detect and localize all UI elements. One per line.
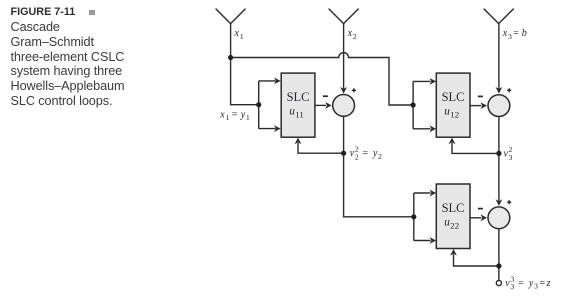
svg-text:3: 3 — [508, 32, 512, 41]
wire summer3 output down to terminal — [498, 229, 500, 280]
node v32 junction — [496, 151, 501, 156]
wire u22 output to summer 3 — [470, 217, 481, 219]
svg-text:SLC: SLC — [442, 90, 465, 104]
wire feedback y2 into bottom of u11 — [298, 143, 344, 153]
svg-text:11: 11 — [295, 109, 303, 119]
output terminal open circle — [496, 280, 501, 285]
wire branch pair into SLC u12 — [413, 81, 431, 128]
minus sign at summer 3 — [478, 208, 483, 210]
summer circle 3 — [488, 207, 510, 229]
arrowhead feedback into u11 bottom — [295, 138, 302, 145]
svg-text:1: 1 — [240, 32, 244, 41]
arrowhead into u11 upper input — [274, 78, 281, 85]
svg-text:y: y — [528, 278, 534, 289]
node x1=y1 branch junction — [256, 102, 261, 107]
svg-text:2: 2 — [378, 152, 382, 161]
label v3^3 = y3 = z — [505, 274, 550, 291]
node u12 branch junction — [411, 102, 416, 107]
wire branch pair into SLC u22 — [414, 193, 431, 241]
node junction dot on x1 bus — [228, 55, 233, 60]
arrowhead into u11 lower input — [274, 125, 281, 132]
wire u12 output to summer 2 — [470, 105, 481, 107]
label x1 — [234, 28, 244, 41]
svg-text:x: x — [502, 28, 508, 39]
svg-text:SLC: SLC — [287, 90, 310, 104]
summer circle 1 — [333, 95, 355, 117]
node z feedback junction — [496, 263, 501, 268]
wire main bus from node at x1 over x2 (hop) to right then down to u12 branch node — [231, 53, 414, 105]
svg-text:1: 1 — [226, 113, 230, 122]
arrowhead feedback into u22 bottom — [450, 249, 457, 256]
svg-text:x: x — [234, 28, 240, 39]
svg-text:x: x — [219, 109, 225, 120]
arrowhead x2 into summer 1 — [340, 87, 347, 94]
svg-text:3: 3 — [509, 153, 513, 162]
wire summer1 output down to y2 node and right to u22 branch node — [344, 117, 414, 217]
wire x2 column into summer 1 — [343, 24, 345, 90]
plus sign at summer 3 — [507, 200, 511, 204]
arrowhead into u22 upper input — [430, 190, 437, 197]
antenna 1 — [216, 9, 246, 24]
svg-text:b: b — [522, 28, 527, 39]
svg-text:2: 2 — [355, 152, 359, 161]
wire branch pair into SLC u11 — [259, 81, 276, 129]
SLC u22 box — [436, 184, 470, 249]
minus sign at summer 1 — [323, 95, 328, 97]
svg-text:=: = — [232, 109, 238, 120]
node y2 junction — [341, 151, 346, 156]
plus sign at summer 2 — [507, 88, 511, 92]
svg-text:=: = — [513, 28, 519, 39]
label v3^2 — [504, 145, 513, 162]
figure caption — [11, 4, 151, 109]
arrowhead u11 output into summer 1 — [325, 102, 332, 109]
antenna 2 — [329, 9, 359, 24]
label x1 = y1 — [219, 109, 250, 122]
minus sign at summer 2 — [478, 95, 483, 97]
wire feedback v32 into bottom of u12 — [452, 143, 499, 154]
arrowhead into u22 lower input — [430, 237, 437, 244]
label x3 = b — [502, 28, 527, 41]
svg-text:1: 1 — [246, 113, 250, 122]
label v2^2 = y2 — [350, 145, 382, 162]
node u22 branch junction — [411, 214, 416, 219]
svg-text:12: 12 — [450, 109, 459, 119]
arrowhead u22 output into summer 3 — [480, 214, 487, 221]
svg-text:z: z — [546, 278, 551, 289]
wire x3 column into summer 2 — [498, 24, 500, 90]
svg-text:x: x — [347, 28, 353, 39]
wire feedback z into bottom of u22 — [454, 254, 499, 266]
summer circle 2 — [488, 95, 510, 117]
wire x1 column down and right to branch node — [231, 24, 259, 105]
arrowhead u12 output into summer 2 — [480, 102, 487, 109]
SLC u12 box — [436, 73, 470, 137]
arrowhead feedback into u12 bottom — [449, 138, 456, 145]
svg-text:2: 2 — [353, 32, 357, 41]
svg-text:=: = — [363, 148, 369, 159]
svg-text:y: y — [240, 109, 246, 120]
arrowhead into u12 lower input — [430, 125, 437, 132]
svg-text:SLC: SLC — [442, 201, 465, 215]
svg-text:3: 3 — [510, 282, 514, 291]
arrowhead x3 into summer 2 — [496, 87, 503, 94]
svg-text:=: = — [540, 278, 546, 289]
wire summer2 output down into summer 3 — [498, 117, 500, 201]
arrowhead into summer 3 top — [496, 199, 503, 206]
label x2 — [347, 28, 357, 41]
svg-text:3: 3 — [534, 282, 538, 291]
svg-text:22: 22 — [450, 220, 459, 230]
arrowhead into u12 upper input — [430, 78, 437, 85]
antenna 3 — [484, 9, 514, 24]
wire u11 output to summer 1 — [315, 104, 326, 106]
SLC u11 box — [281, 73, 315, 137]
svg-text:=: = — [518, 278, 524, 289]
plus sign at summer 1 — [352, 88, 356, 92]
